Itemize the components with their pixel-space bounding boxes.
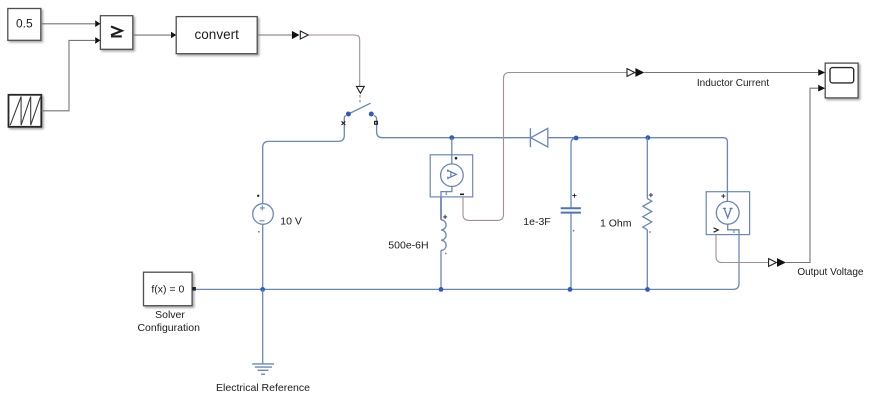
diode triangle [531,128,548,147]
scope input arrow 1 [818,69,825,76]
repeating sequence (sawtooth) block [9,95,42,127]
wire inductor current to scope [644,72,818,74]
rail junction dot at resistor [645,287,650,292]
resistor top marker [649,193,653,197]
rail junction dot at inductor [439,287,444,292]
switch right port marker [375,121,378,124]
ground stem wire [262,289,264,364]
node dot above ammeter [449,135,454,140]
switch lever [348,103,370,114]
PS-simulink converter open arrow (inductor current) [627,69,635,77]
voltage source top port marker [257,195,259,197]
wire sawtooth to relational [41,40,95,110]
svg-text:1e-3F: 1e-3F [523,216,550,228]
scope input arrow 2 [818,85,825,92]
inductor bottom marker [445,253,447,255]
svg-text:f(x) = 0: f(x) = 0 [151,284,184,296]
ammeter block box [430,155,473,197]
voltage source circle [253,204,274,225]
ammeter bottom port tick [445,192,447,195]
inductor coil [441,220,446,251]
voltmeter bottom internal wire [728,224,739,230]
solver configuration port square [192,287,196,291]
wire inductor to rail [440,250,442,289]
diode cathode bar [529,128,531,147]
svg-text:Inductor Current: Inductor Current [697,78,769,89]
svg-text:Electrical Reference: Electrical Reference [216,382,310,394]
capacitor branch elbow [571,138,576,208]
node dot at capacitor top [574,136,579,141]
wire diode to voltmeter corner [548,138,728,202]
capacitor plates [561,208,581,212]
wire output voltage to scope [786,88,818,262]
ammeter circle [441,164,464,187]
solver configuration block [144,272,193,306]
electrical reference ground symbol [252,364,274,374]
resistor bottom marker [649,231,651,233]
wire capacitor to rail [570,214,572,290]
rail junction dot at source [260,287,265,292]
PS wire voltmeter to output voltage converter [716,235,768,263]
convert (data type conversion) block [176,17,257,54]
switch right leg wire to main node [374,116,530,138]
resistor zigzag [643,199,652,230]
svg-text:500e-6H: 500e-6H [388,239,428,251]
svg-text:convert: convert [195,27,240,42]
wire ammeter to inductor [440,197,442,220]
node dot at resistor top [646,135,651,140]
rail junction dot at capacitor [568,287,573,292]
PS-simulink converter filled arrow (output voltage) [777,258,786,267]
wire node to resistor [646,138,648,199]
voltmeter plus marker [721,194,725,198]
voltage source bottom marker [258,231,260,233]
voltmeter block box [706,192,749,235]
svg-text:1 Ohm: 1 Ohm [600,218,632,230]
wire resistor to rail [646,230,648,290]
PS-simulink converter filled arrow (inductor current) [635,68,644,77]
svg-text:Solver: Solver [155,309,185,321]
svg-text:10 V: 10 V [280,216,302,228]
voltage source plus symbol [260,205,265,210]
wire convert to converter arrows [257,34,291,36]
wire source bottom to rail [262,224,264,289]
svg-text:Output Voltage: Output Voltage [797,267,864,278]
voltmeter letter V [723,208,733,217]
wire node to ammeter circle [451,138,453,164]
wire relational to convert [133,34,172,36]
ammeter letter A rotated [448,169,457,179]
switch left node dot [346,112,351,117]
ammeter top port marker [455,157,458,160]
switch left port marker [342,121,346,125]
svg-text:0.5: 0.5 [16,17,33,31]
relational operator block >= [100,16,132,50]
voltmeter bottom port tick [733,230,735,233]
input port arrow of convert block [171,32,176,39]
capacitor bottom marker [573,230,575,232]
inductor plus marker [443,215,447,219]
ammeter bottom internal wire [441,187,452,197]
input port arrow 1 of relational block [95,20,100,27]
voltage source minus symbol [259,220,264,222]
voltmeter circle [716,201,739,224]
switch control dashed PS stub [359,95,361,104]
scope block [825,63,858,98]
PS wire ammeter to inductor current converter [463,73,627,221]
constant block 0.5 [8,9,41,41]
input port arrow 2 of relational block [95,37,100,44]
voltmeter PS port marker [714,228,719,232]
wire constant to relational [41,23,96,25]
switch control open triangle [357,86,365,93]
PS wire converter to switch control [309,35,360,86]
simulink-PS converter open arrow [300,31,308,39]
simulink-PS converter filled arrow [292,31,300,39]
capacitor plus marker [572,194,576,198]
ammeter minus marker [460,193,464,195]
switch left leg wire to source top [263,116,346,204]
bottom rail wire [196,230,739,290]
switch right node dot [369,112,374,117]
svg-text:Configuration: Configuration [137,322,200,334]
PS-simulink converter open arrow (output voltage) [769,259,777,267]
